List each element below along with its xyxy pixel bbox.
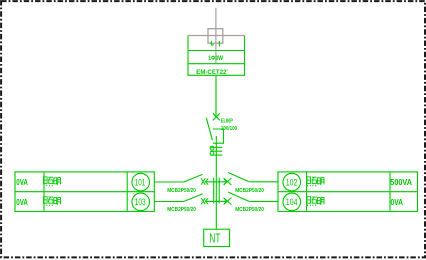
- circuit circle 102: [283, 173, 301, 191]
- branch row 1 right wire to panel: [249, 181, 278, 183]
- branch row 2 left contact cross: [201, 198, 205, 204]
- svg-text:101: 101: [135, 177, 146, 187]
- breaker QF contact cross: [213, 113, 220, 120]
- label MCB2P50/20 row2 right: [235, 207, 264, 213]
- current transformer bars: [210, 147, 222, 155]
- branch row 1 left contact cross: [201, 178, 205, 184]
- branch row 2 left arrowhead: [205, 198, 208, 204]
- main vertical feeder wire: [215, 136, 217, 229]
- meter polarity mark left (green L): [211, 41, 213, 45]
- branch row 2 right wire to panel: [249, 200, 278, 202]
- NT box: [204, 229, 230, 246]
- label MCB2P50/20 row1 right: [235, 188, 264, 194]
- branch row 2 right contact cross: [224, 198, 232, 205]
- svg-text:500VA: 500VA: [390, 177, 412, 187]
- right panel table: [278, 172, 418, 212]
- svg-text:1Φ3W: 1Φ3W: [208, 55, 223, 62]
- meter box top edge (red line): [188, 35, 245, 37]
- wire meter to breaker: [215, 75, 217, 117]
- svg-text:0VA: 0VA: [391, 197, 404, 207]
- breaker release rectangle: [213, 129, 224, 143]
- branch row 1 left wire to panel: [154, 181, 183, 183]
- meter polarity mark right (green tick): [218, 41, 220, 47]
- branch row 1 crossing wire: [205, 181, 226, 183]
- branch row 2 left wire to panel: [154, 201, 183, 203]
- branch row 1 left blade: [184, 174, 203, 182]
- svg-text:103: 103: [135, 197, 146, 207]
- svg-text:MCB2P50/20: MCB2P50/20: [235, 188, 264, 194]
- svg-text:MCB2P50/20: MCB2P50/20: [235, 207, 264, 213]
- label MCB2P50/20 row2 left: [167, 207, 196, 213]
- meter label 1Φ3W: [208, 55, 223, 62]
- branch row 1 right arrowhead: [224, 179, 227, 185]
- left panel 照明 row1: [44, 177, 61, 186]
- svg-text:104: 104: [286, 197, 298, 207]
- right panel load 0VA row2: [391, 197, 404, 207]
- right panel 照明 row1: [307, 177, 324, 186]
- svg-text:MCB2P50/20: MCB2P50/20: [167, 207, 196, 213]
- svg-text:NT: NT: [209, 230, 220, 245]
- left panel load 0VA row2: [16, 197, 28, 207]
- CT / meter current loop square (grey): [208, 29, 223, 44]
- svg-text:102: 102: [286, 177, 298, 187]
- left panel 照明 row2: [44, 197, 61, 206]
- branch row 1 right blade: [228, 173, 249, 182]
- svg-text:EM-CET22': EM-CET22': [196, 69, 228, 76]
- breaker label EL80P: [221, 118, 233, 124]
- right panel 照明 row2: [307, 197, 324, 206]
- circuit circle 101: [132, 173, 150, 191]
- left panel load 0VA row1: [16, 177, 28, 187]
- branch row 1 left arrowhead: [205, 179, 208, 185]
- breaker label 100/100: [221, 126, 237, 132]
- branch row 2 right blade: [228, 192, 249, 201]
- branch row 2 left blade: [184, 194, 203, 202]
- circuit circle 104: [283, 193, 301, 211]
- svg-text:MCB2P50/20: MCB2P50/20: [167, 188, 196, 194]
- svg-text:EL80P: EL80P: [221, 118, 233, 124]
- svg-text:0VA: 0VA: [16, 177, 28, 187]
- current transformer coils: [210, 146, 214, 155]
- busbar side line right: [218, 178, 220, 204]
- meter label EM-CET22': [196, 69, 228, 76]
- branch row 2 right arrowhead: [224, 198, 227, 204]
- left panel table: [15, 172, 154, 212]
- kWh meter box outline: [188, 36, 245, 76]
- branch row 2 crossing wire: [205, 200, 226, 202]
- circuit circle 103: [132, 193, 150, 211]
- right panel load 500VA row1: [390, 177, 412, 187]
- incoming supply line (grey): [215, 8, 217, 64]
- breaker blade: [206, 118, 212, 140]
- busbar side line left: [213, 178, 215, 204]
- label MCB2P50/20 row1 left: [167, 188, 196, 194]
- branch row 1 right contact cross: [224, 178, 232, 185]
- svg-text:0VA: 0VA: [16, 197, 28, 207]
